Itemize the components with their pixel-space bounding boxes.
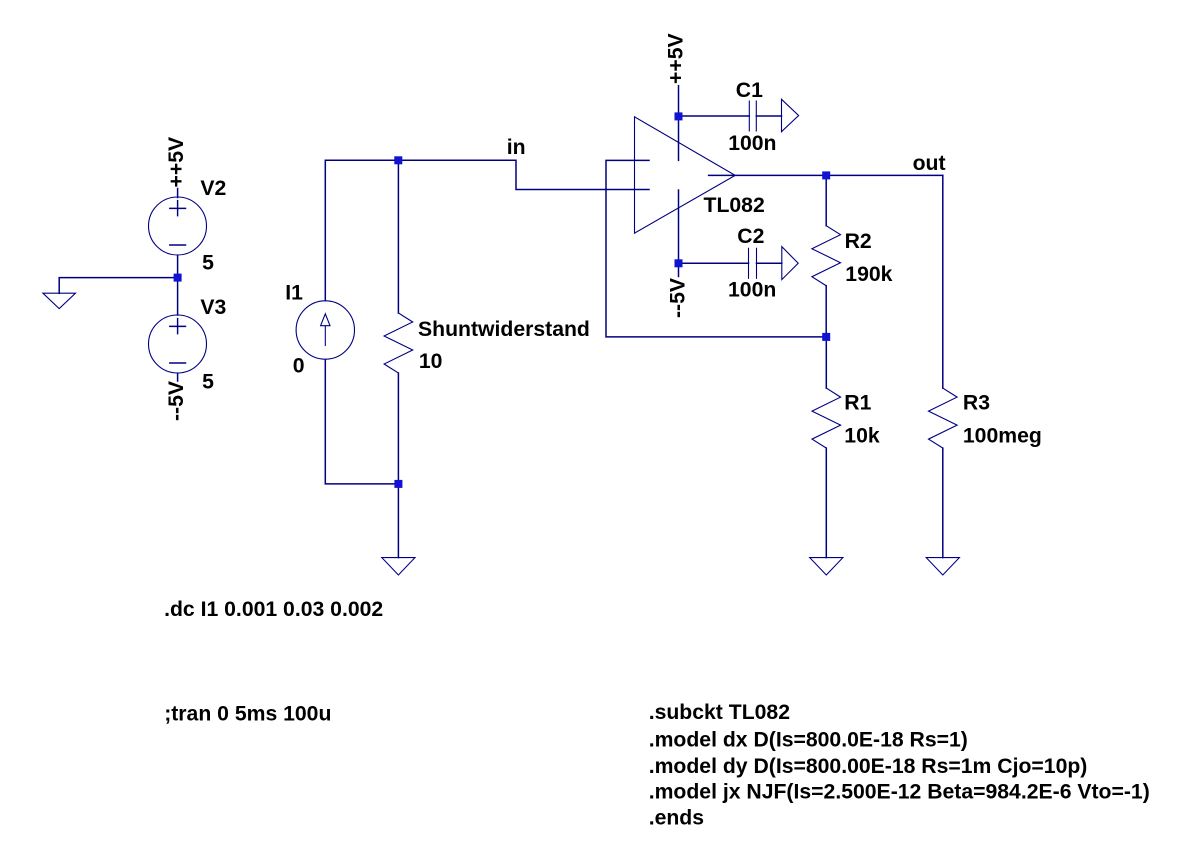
wire R1 bottom lead to ground [825, 448, 827, 557]
resistor R2 zigzag [812, 226, 841, 286]
svg-text:100meg: 100meg [963, 424, 1042, 447]
ground below bottom node [382, 558, 415, 575]
svg-text:190k: 190k [845, 263, 892, 286]
wire I1 bottom to bottom node [325, 360, 398, 484]
wire +5V label stub to V+ node [678, 86, 680, 117]
node junction feedback [822, 333, 830, 341]
svg-text:R2: R2 [845, 230, 872, 253]
svg-text:100n: 100n [728, 278, 776, 301]
svg-text:++5V: ++5V [165, 137, 188, 188]
node junction bottom [394, 480, 402, 488]
svg-text:.ends: .ends [649, 806, 704, 829]
voltage source V3 circle [149, 315, 207, 373]
svg-text:out: out [913, 152, 946, 175]
resistor R1 zigzag [812, 388, 841, 448]
wire feedback node to opamp upper input [606, 160, 826, 337]
wire node to left ground [59, 278, 177, 294]
node junction V2/V3 [174, 274, 182, 282]
op-amp U1 triangle [635, 117, 736, 233]
svg-text:100n: 100n [728, 132, 776, 155]
svg-text:5: 5 [202, 371, 214, 394]
svg-text:++5V: ++5V [665, 33, 688, 84]
wire V- node to C2 [679, 262, 749, 264]
wire R3 bottom lead to ground [942, 448, 944, 557]
node junction in [394, 156, 402, 164]
V3 minus sign [170, 362, 186, 364]
wire shunt bottom lead [397, 373, 399, 484]
wire in node to opamp lower input [398, 160, 649, 189]
svg-text:in: in [507, 136, 526, 159]
svg-text:Shuntwiderstand: Shuntwiderstand [418, 318, 590, 341]
svg-text:TL082: TL082 [704, 194, 765, 217]
rotated ground at C1 [782, 99, 799, 131]
capacitor C2 plates [749, 248, 757, 278]
wire C1 to rotated ground [756, 115, 781, 117]
wire ++5V stub to V2 top [177, 189, 179, 198]
svg-text:.model dx D(Is=800.0E-18 Rs=1): .model dx D(Is=800.0E-18 Rs=1) [649, 728, 968, 751]
svg-text:.dc I1 0.001 0.03 0.002: .dc I1 0.001 0.03 0.002 [164, 598, 383, 621]
wire opamp output to out corner [709, 174, 943, 176]
V2 minus sign [170, 244, 186, 246]
wire out corner down to R3 [942, 175, 944, 388]
ground at V2/V3 midpoint [43, 293, 76, 308]
wire R1 top lead [825, 337, 827, 388]
wire bottom node to ground [397, 484, 399, 558]
svg-text:R3: R3 [963, 391, 990, 414]
V3 plus sign [170, 319, 186, 334]
wire R2 bottom lead to feedback node [825, 286, 827, 337]
svg-text:.model dy D(Is=800.00E-18 Rs=1: .model dy D(Is=800.00E-18 Rs=1m Cjo=10p) [649, 755, 1088, 778]
voltage source V2 circle [149, 197, 207, 255]
svg-text:;tran 0 5ms 100u: ;tran 0 5ms 100u [164, 703, 331, 726]
wire V- pin through opamp to node and -5V stub [678, 190, 680, 277]
svg-text:.model jx NJF(Is=2.500E-12 Bet: .model jx NJF(Is=2.500E-12 Beta=984.2E-6… [649, 781, 1150, 804]
wire C2 to rotated ground [757, 262, 782, 264]
wire V+ pin into opamp [678, 116, 680, 160]
svg-text:--5V: --5V [667, 278, 690, 318]
resistor R3 zigzag [929, 388, 958, 448]
wire V2 bottom through node to V3 top [177, 255, 179, 315]
wire V+ node to C1 [679, 115, 750, 117]
svg-text:V2: V2 [200, 177, 226, 200]
svg-text:0: 0 [293, 354, 305, 377]
V2 plus sign [170, 201, 186, 216]
svg-text:V3: V3 [200, 296, 226, 319]
svg-text:I1: I1 [285, 281, 303, 304]
svg-text:5: 5 [202, 251, 214, 274]
resistor Shuntwiderstand zigzag [384, 313, 413, 373]
svg-text:R1: R1 [844, 391, 871, 414]
I1 arrow shaft [324, 326, 326, 346]
svg-text:C1: C1 [736, 79, 763, 102]
svg-text:10: 10 [419, 350, 443, 373]
wire R2 top lead [825, 175, 827, 225]
node junction V+ [675, 112, 683, 120]
svg-text:C2: C2 [737, 225, 764, 248]
ground below R3 [926, 558, 959, 575]
svg-text:.subckt TL082: .subckt TL082 [649, 701, 790, 724]
svg-text:10k: 10k [844, 424, 880, 447]
wire V3 bottom stub to --5V label [177, 373, 179, 381]
wire shunt top lead [397, 160, 399, 313]
rotated ground at C2 [782, 247, 798, 280]
node junction V- [675, 259, 683, 267]
current source I1 circle [296, 301, 354, 359]
wire I1 top to in node [325, 160, 398, 300]
svg-text:--5V: --5V [165, 381, 188, 421]
node junction out [822, 171, 830, 179]
I1 arrowhead [321, 314, 330, 326]
capacitor C1 plates [749, 101, 756, 131]
ground below R1 [810, 558, 843, 575]
